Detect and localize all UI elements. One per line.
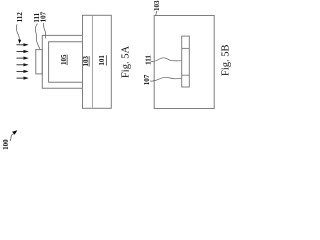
- label 101 with underline: [98, 55, 106, 66]
- divider upper (107/111 boundary): [182, 47, 190, 49]
- tick from 103 to die corner: [156, 11, 157, 15]
- arrowhead of 112 leader: [18, 39, 21, 44]
- strip 107 outline: [182, 36, 190, 87]
- radiation arrow 3: [17, 57, 28, 59]
- label 105 with underline: [60, 54, 68, 65]
- svg-text:107: 107: [143, 74, 151, 85]
- boundary line between 103 and 101: [91, 15, 93, 108]
- radiation arrow 2: [17, 50, 28, 52]
- svg-text:101: 101: [98, 55, 106, 66]
- svg-text:111: 111: [144, 55, 152, 65]
- layer 111 strip: [36, 50, 43, 74]
- leader from 100: [10, 134, 14, 141]
- leader from 111 to strip: [151, 58, 181, 62]
- label 103 with underline (Fig 5A): [82, 56, 90, 67]
- leader from 112: [16, 24, 19, 40]
- radiation arrow 4: [17, 64, 28, 66]
- svg-text:112: 112: [16, 12, 24, 23]
- die outline 103: [154, 16, 214, 109]
- layer 107 box (around 105): [42, 35, 82, 88]
- leader from 111 to strip: [35, 24, 39, 49]
- svg-text:Fig. 5B: Fig. 5B: [220, 44, 231, 76]
- leader from 107 to layer: [43, 23, 45, 39]
- leader from 107 to strip: [150, 77, 181, 81]
- substrate 101 / layer 103 tall rectangle: [83, 15, 112, 108]
- svg-text:107: 107: [39, 11, 47, 22]
- divider lower (111/107 boundary): [182, 74, 190, 76]
- svg-text:103: 103: [153, 0, 161, 11]
- svg-text:Fig. 5A: Fig. 5A: [120, 46, 131, 79]
- radiation arrow 5: [17, 70, 28, 72]
- radiation arrow 1: [17, 44, 28, 46]
- mesa 105 box: [49, 42, 83, 83]
- radiation arrow 6: [17, 77, 28, 79]
- svg-text:100: 100: [2, 139, 10, 150]
- svg-text:105: 105: [60, 54, 68, 65]
- arrowhead of 100 leader: [12, 130, 17, 135]
